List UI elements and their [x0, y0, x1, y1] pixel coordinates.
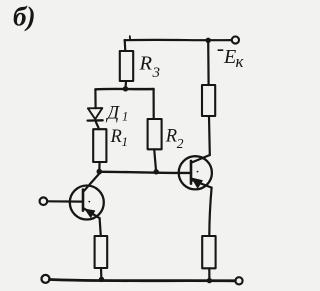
ink speck VT1 — [88, 201, 90, 203]
svg-text:E: E — [223, 46, 236, 68]
wire R3 bottom stub — [124, 81, 127, 89]
junction top rail / right rail — [206, 38, 211, 43]
resistor R1 — [93, 129, 106, 162]
wire R2 bottom stub — [154, 149, 156, 171]
wire bottom rail — [50, 280, 236, 281]
label R3 — [139, 53, 161, 82]
wire node A horizontal — [95, 88, 153, 91]
svg-text:к: к — [236, 52, 245, 71]
junction R2 / node B — [154, 169, 159, 174]
terminal -Ek — [232, 36, 239, 43]
svg-text:R: R — [110, 127, 122, 147]
resistor VT1 emitter (bottom left) — [95, 236, 108, 268]
terminal input — [40, 197, 48, 205]
label Д1 — [105, 103, 128, 123]
terminal bottom right — [235, 277, 242, 284]
transistor VT1 — [70, 174, 104, 220]
wire top rail — [125, 39, 232, 42]
transistor VT2 — [179, 155, 212, 189]
svg-text:R: R — [139, 53, 153, 75]
label R1 — [110, 127, 129, 149]
ink speck VT2 — [197, 171, 199, 173]
svg-text:R: R — [165, 127, 177, 147]
resistor collector load (top right) — [202, 85, 215, 116]
wire bottom-left resistor stub — [100, 268, 103, 280]
svg-text:б): б) — [13, 2, 35, 32]
wire VT1 emitter down — [100, 218, 101, 236]
diode Д1 — [88, 108, 103, 121]
resistor VT2 emitter (bottom right) — [202, 236, 215, 268]
junction R1 / node B — [97, 169, 103, 175]
svg-text:3: 3 — [152, 65, 161, 81]
wire right rail upper — [207, 40, 210, 85]
wire right rail to VT2 collector — [208, 116, 211, 155]
label R2 — [165, 127, 184, 151]
wire node B horizontal — [99, 172, 190, 173]
svg-text:Д: Д — [105, 103, 120, 123]
wire bottom-right resistor stub — [208, 268, 210, 280]
wire R2 top stub — [153, 89, 155, 119]
label -Ek — [217, 36, 245, 71]
terminal bottom left — [42, 275, 50, 283]
wire R1 bottom stub — [98, 162, 100, 171]
svg-text:1: 1 — [122, 134, 129, 149]
junction bottom left — [99, 277, 104, 282]
resistor R3 — [120, 51, 133, 81]
wire corner overshoot tick — [129, 36, 131, 40]
wire R3 top stub — [124, 40, 127, 51]
svg-text:1: 1 — [122, 110, 128, 124]
wire input to base VT1 — [47, 200, 82, 203]
resistor R2 — [148, 119, 162, 149]
junction bottom right — [207, 278, 212, 283]
junction node A — [123, 86, 128, 91]
wire diode anode stub — [94, 89, 96, 108]
wire VT2 emitter down — [209, 188, 211, 236]
wire diode to R1 — [96, 120, 99, 129]
svg-text:2: 2 — [177, 136, 184, 151]
